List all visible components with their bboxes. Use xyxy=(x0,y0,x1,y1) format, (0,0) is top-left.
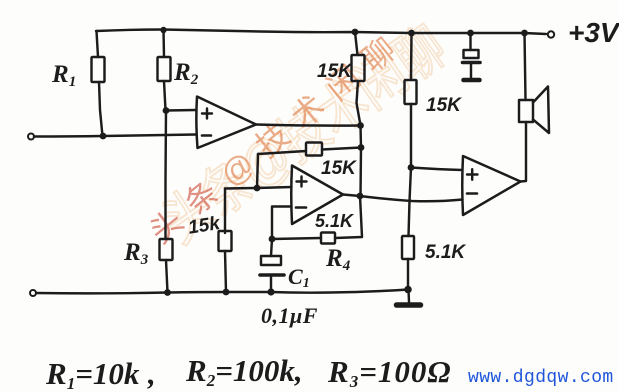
svg-text:5.1K: 5.1K xyxy=(425,242,466,263)
resistor 15k (lower left bias) xyxy=(224,189,226,234)
wire speaker top to +3V rail xyxy=(525,33,526,100)
resistor 15K feedback (horizontal) xyxy=(322,148,361,150)
svg-text:15K: 15K xyxy=(317,61,353,82)
node top of R2 xyxy=(160,27,166,33)
resistor 15K (U1 output pull-up) xyxy=(355,32,358,55)
svg-text:5.1K: 5.1K xyxy=(315,211,355,231)
wire U2 inverting input xyxy=(272,207,292,240)
wire bottom rail xyxy=(36,290,408,294)
op-amp U1 xyxy=(196,97,256,149)
svg-text:R1=10k,: R1=10k, xyxy=(45,356,156,392)
wire feedback node down to U2 output node xyxy=(359,148,362,197)
wire input to op-amp U1 inverting input xyxy=(34,135,196,137)
node U2 output xyxy=(357,193,364,200)
resistor R1 xyxy=(97,31,99,57)
wire U2 output to U3 inverting input xyxy=(343,195,463,202)
node top of decoupling cap xyxy=(467,30,474,37)
capacitor C2 decoupling xyxy=(469,33,471,50)
resistor R3 xyxy=(160,239,173,260)
node top of 15K bias rail xyxy=(408,30,415,37)
ground terminal left xyxy=(30,290,36,296)
node U3 + bias tap xyxy=(408,164,415,171)
resistor 5.1K (U3 bias lower) xyxy=(402,236,414,259)
op-amp U2 xyxy=(291,166,343,225)
wire 15K node down to feedback node xyxy=(359,126,362,148)
resistor 15K (U3 bias upper) xyxy=(410,33,413,80)
resistor R2 xyxy=(162,30,165,57)
node C1 bottom on ground rail xyxy=(267,288,274,295)
ground symbol xyxy=(407,290,410,303)
wire 15k bias to U2 + input xyxy=(225,187,292,189)
node feedback top xyxy=(358,144,365,151)
resistor R4 (horizontal) xyxy=(272,238,321,239)
op-amp U3 xyxy=(462,156,520,215)
svg-text:R3=100Ω: R3=100Ω xyxy=(327,354,451,391)
wire R2 node down to R3 xyxy=(164,111,167,239)
svg-text:0,1μF: 0,1μF xyxy=(261,303,318,328)
wire top rail xyxy=(96,30,546,35)
wire node to U1 + input xyxy=(166,109,196,112)
node U2 - / R4 / C1 xyxy=(269,236,276,243)
wire U3 output up to speaker xyxy=(521,122,527,182)
svg-text:+3V: +3V xyxy=(568,17,619,48)
node U2 + input xyxy=(254,185,261,192)
node U1 output / 15K xyxy=(357,122,364,129)
svg-text:www.dgdqw.com: www.dgdqw.com xyxy=(468,368,614,388)
wire bias tap to U3 + input xyxy=(411,168,463,171)
svg-text:15K: 15K xyxy=(426,95,462,116)
wire bias tap down to 5.1K xyxy=(409,168,412,237)
node R2 bottom / U1 + input xyxy=(163,107,170,114)
input terminal left xyxy=(28,134,34,140)
wire U1 output xyxy=(256,125,361,126)
node R3 bottom xyxy=(164,289,171,296)
capacitor C1 xyxy=(271,239,272,256)
svg-text:15K: 15K xyxy=(321,158,357,179)
+3V terminal xyxy=(548,31,554,37)
ground bar of C2 xyxy=(464,78,480,83)
speaker LS xyxy=(519,100,533,122)
node ground junction xyxy=(404,286,412,294)
node top of 15K feedback rail xyxy=(352,29,359,36)
node top of speaker branch xyxy=(521,30,528,37)
svg-text:R2=100k,: R2=100k, xyxy=(185,353,303,390)
node input junction with R1 xyxy=(100,133,107,140)
node 15k bias bottom xyxy=(223,289,230,296)
